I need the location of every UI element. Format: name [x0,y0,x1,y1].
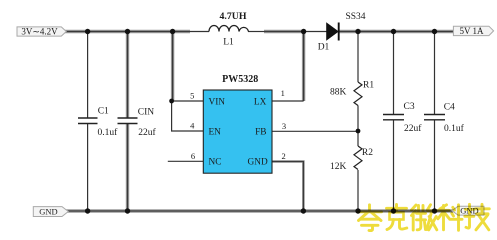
wire NC pin stub [168,160,204,162]
svg-text:6: 6 [191,151,195,161]
svg-text:R1: R1 [363,81,374,91]
junction dot VIN/EN [169,99,174,104]
svg-text:VIN: VIN [209,97,226,107]
svg-text:GND: GND [248,158,268,168]
wire C4 vertical [434,32,436,115]
wire R1 bottom to FB node [357,106,359,147]
svg-text:NC: NC [209,158,222,168]
ground flag left GND [33,207,68,217]
wire CIN vertical thick [126,32,129,212]
node output port 5V 1A [453,26,493,36]
svg-text:1: 1 [281,88,285,98]
ground flag right GND [452,206,484,216]
svg-text:88K: 88K [330,88,347,98]
svg-text:5V 1A: 5V 1A [459,26,484,36]
svg-text:3V∼4.2V: 3V∼4.2V [21,27,58,37]
diode D1 SS34 [318,12,366,52]
wire GND pin 2 route [272,162,303,212]
svg-text:4.7UH: 4.7UH [220,11,247,22]
svg-text:LX: LX [254,97,267,107]
svg-text:0.1uf: 0.1uf [444,123,465,134]
svg-text:L1: L1 [223,38,234,48]
svg-text:EN: EN [209,128,222,138]
char ke2 [438,205,462,231]
svg-text:0.1uf: 0.1uf [98,127,119,138]
svg-text:CIN: CIN [138,108,155,118]
svg-text:C3: C3 [404,102,415,112]
resistor R1 88K [330,81,374,106]
wire thick segment inductor to LX node [264,30,304,33]
wire FB to divider [272,130,358,132]
wire R2 bottom [357,170,359,211]
char ji [465,204,490,230]
wire EN tie to VIN [172,101,204,131]
wire C1 vertical [87,32,89,119]
svg-text:C1: C1 [98,107,109,117]
wire R1 top [357,32,359,83]
wire LX vertical thick [302,32,305,102]
wire top rail thick left segment [64,30,190,33]
wire bottom ground rail thick [66,209,453,212]
wire LX pin stub [272,100,304,102]
svg-text:4: 4 [190,120,195,130]
wire top rail thick right segment to output port [339,30,454,33]
junction dots top rail [85,29,90,34]
svg-text:SS34: SS34 [345,12,365,22]
svg-text:GND: GND [39,207,57,217]
wire top rail thin to inductor [190,31,209,33]
junction dots bottom rail [85,208,90,213]
capacitor CIN [118,108,157,139]
svg-text:2: 2 [281,151,285,161]
junction dot FB node [356,129,361,134]
wire inductor right to thick [248,31,264,33]
char wei [412,205,437,230]
svg-text:PW5328: PW5328 [222,74,258,85]
svg-text:12K: 12K [330,162,347,172]
svg-text:22uf: 22uf [138,127,156,138]
inductor L1 [209,11,249,48]
capacitor C3 [383,102,422,134]
wire diode anode thin [304,31,328,33]
wire VIN pin stub [172,100,204,102]
op-amp U1 PW5328 chip body [203,74,272,173]
char ke [387,205,407,230]
svg-text:C4: C4 [444,103,455,113]
watermark 夸克微科技 [358,204,489,230]
wire VIN vertical thick [171,32,174,102]
svg-text:FB: FB [255,128,266,138]
svg-text:D1: D1 [318,42,330,52]
capacitor C4 [424,103,465,135]
char kua [358,205,382,231]
resistor R2 12K [330,146,373,172]
node input port 3V~4.2V [17,27,66,37]
svg-text:5: 5 [190,91,194,101]
svg-text:22uf: 22uf [404,123,422,134]
svg-text:R2: R2 [362,148,373,158]
wire C3 vertical [393,32,395,115]
svg-text:3: 3 [282,121,286,131]
capacitor C1 [78,107,118,139]
